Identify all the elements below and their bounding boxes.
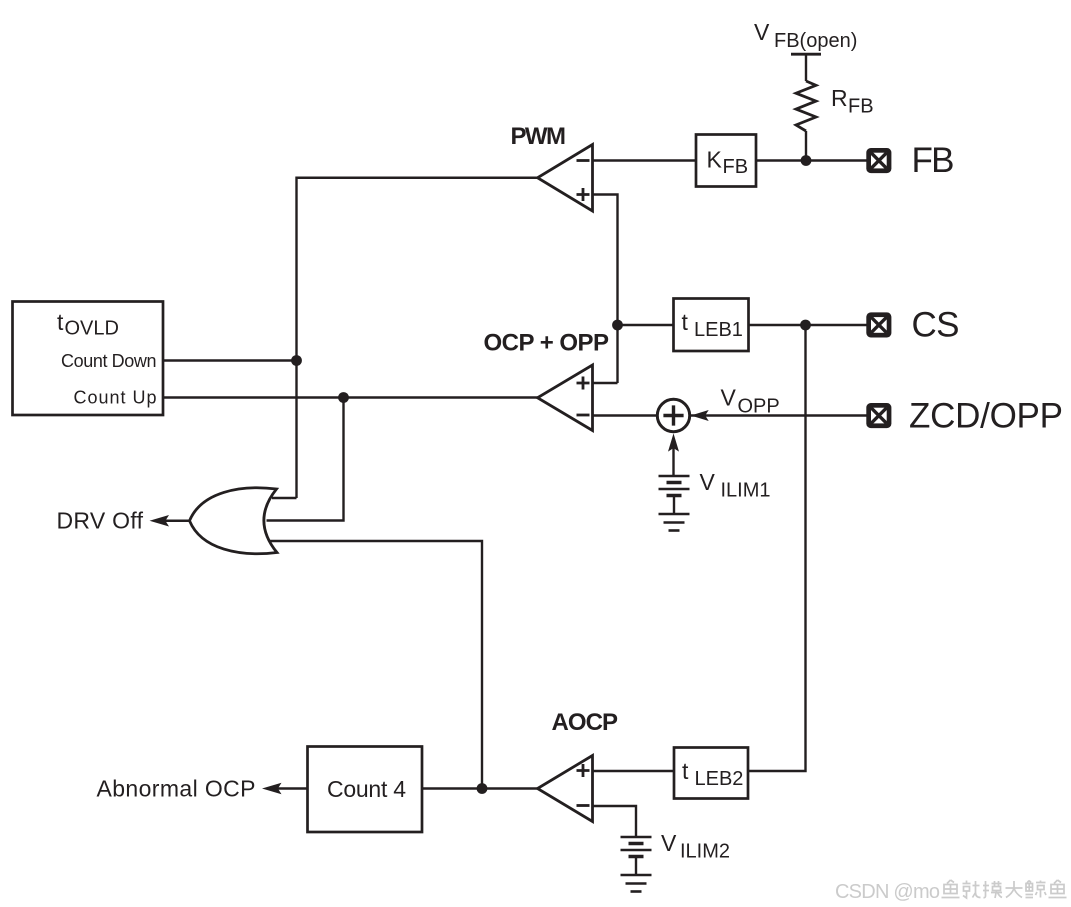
watermark glyph jiu <box>963 881 981 899</box>
svg-text:K: K <box>707 147 723 173</box>
label VILIM2 <box>661 830 730 863</box>
wire OR top input <box>272 497 297 499</box>
block tOVLD <box>13 302 164 416</box>
svg-text:V: V <box>700 469 716 495</box>
op-amp AOCP comparator <box>538 756 593 822</box>
svg-text:LEB2: LEB2 <box>695 768 744 790</box>
wire ZCD/OPP to summing node <box>690 414 867 416</box>
svg-text:CSDN @mo: CSDN @mo <box>835 881 940 903</box>
battery VILIM2 <box>621 837 652 857</box>
arrowhead into summing node bottom <box>668 433 679 451</box>
svg-text:PWM: PWM <box>511 123 566 150</box>
wire OCP inverting input <box>593 414 659 416</box>
ground VILIM2 <box>621 875 652 892</box>
svg-text:OCP + OPP: OCP + OPP <box>484 330 609 357</box>
wire AOCP output to Count 4 <box>422 787 538 789</box>
svg-text:AOCP: AOCP <box>552 709 618 736</box>
wire Count Down <box>163 359 297 361</box>
watermark CSDN <box>835 881 940 903</box>
svg-text:LEB1: LEB1 <box>694 319 743 341</box>
svg-text:FB(open): FB(open) <box>774 30 857 52</box>
watermark glyph yu <box>942 880 960 898</box>
wire CS pin to tLEB1 <box>749 324 867 326</box>
wire CS riser to tLEB2 <box>748 325 806 771</box>
junction dot FB node <box>801 155 812 166</box>
wire summing node from VILIM1 <box>672 448 674 476</box>
pin minus OCP <box>577 414 590 417</box>
wire AOCP noninverting to tLEB2 <box>593 770 675 772</box>
wire OCP noninverting input <box>593 382 618 384</box>
pin plus OCP <box>577 377 590 390</box>
svg-text:t: t <box>682 758 689 784</box>
pin CS <box>866 312 891 337</box>
arrowhead into summing node <box>691 410 709 421</box>
svg-text:FB: FB <box>723 156 749 178</box>
svg-text:ILIM2: ILIM2 <box>680 841 730 863</box>
pin minus PWM <box>577 159 590 162</box>
pin plus AOCP <box>577 764 590 777</box>
svg-text:ZCD/OPP: ZCD/OPP <box>909 397 1063 436</box>
wire OR output <box>163 520 190 522</box>
svg-text:OPP: OPP <box>738 396 780 418</box>
wire VILIM2 to ground <box>635 857 637 876</box>
op-amp PWM comparator <box>538 145 593 212</box>
pin plus PWM <box>577 188 590 201</box>
block KFB <box>696 135 756 187</box>
watermark glyph mo <box>983 881 1002 898</box>
label VILIM1 <box>700 469 771 502</box>
block Count 4 <box>308 747 423 833</box>
wire tLEB1 output <box>618 324 674 326</box>
svg-text:Abnormal OCP: Abnormal OCP <box>97 776 256 802</box>
watermark glyph jing <box>1026 881 1047 898</box>
svg-text:t: t <box>57 309 64 335</box>
block tLEB2 <box>674 748 748 799</box>
battery VILIM1 <box>659 476 690 496</box>
pin FB <box>866 148 891 173</box>
watermark glyph yu2 <box>1049 880 1067 898</box>
label tOVLD <box>57 309 119 340</box>
junction dot CS branch <box>800 320 811 331</box>
wire resistor to FB line <box>805 131 807 161</box>
junction dot Count Down <box>291 355 302 366</box>
svg-text:Count Up: Count Up <box>74 388 157 408</box>
svg-text:t: t <box>682 309 689 335</box>
wire OR bottom input <box>270 541 483 789</box>
svg-text:V: V <box>721 385 737 411</box>
junction dot CS sense node <box>612 320 623 331</box>
watermark glyph da <box>1006 881 1023 898</box>
resistor RFB <box>796 81 816 131</box>
svg-text:Count 4: Count 4 <box>327 776 406 802</box>
or-gate DRV Off <box>190 488 278 554</box>
label tLEB2 <box>682 758 743 790</box>
wire AOCP inverting to VILIM2 <box>593 806 637 837</box>
wire KFB to PWM inverting input <box>593 159 697 161</box>
wire PWM output <box>297 178 538 498</box>
svg-text:R: R <box>831 85 848 111</box>
pin ZCD/OPP <box>866 403 891 428</box>
wire Count Up to OCP output <box>163 396 538 398</box>
node VFB(open) supply label <box>754 19 857 52</box>
svg-text:CS: CS <box>912 306 960 345</box>
svg-text:DRV Off: DRV Off <box>57 508 144 534</box>
ground VILIM1 <box>659 514 690 531</box>
svg-text:FB: FB <box>848 96 874 118</box>
svg-text:OVLD: OVLD <box>65 318 119 340</box>
summing node <box>657 399 689 431</box>
svg-text:Count Down: Count Down <box>61 351 157 371</box>
supply bar VFB(open) <box>791 53 821 56</box>
svg-text:FB: FB <box>912 141 955 180</box>
wire supply to resistor <box>805 55 807 81</box>
wire Count 4 output <box>278 787 308 789</box>
wire PWM noninverting input <box>593 195 618 384</box>
wire VILIM1 to ground <box>673 496 675 515</box>
block tLEB1 <box>674 299 749 352</box>
arrowhead Abnormal OCP <box>262 783 282 795</box>
label tLEB1 <box>682 309 743 341</box>
svg-text:V: V <box>661 830 677 856</box>
arrowhead DRV Off <box>150 515 170 527</box>
junction dot AOCP output <box>477 783 488 794</box>
pin minus AOCP <box>577 804 590 807</box>
op-amp OCP+OPP comparator <box>538 365 593 431</box>
label VOPP <box>721 385 780 418</box>
junction dot Count Up <box>338 392 349 403</box>
svg-text:ILIM1: ILIM1 <box>721 480 771 502</box>
label KFB <box>707 147 749 179</box>
wire FB pin to KFB <box>756 159 867 161</box>
wire OR middle input riser <box>267 398 344 521</box>
svg-text:V: V <box>754 19 770 45</box>
label RFB <box>831 85 874 118</box>
